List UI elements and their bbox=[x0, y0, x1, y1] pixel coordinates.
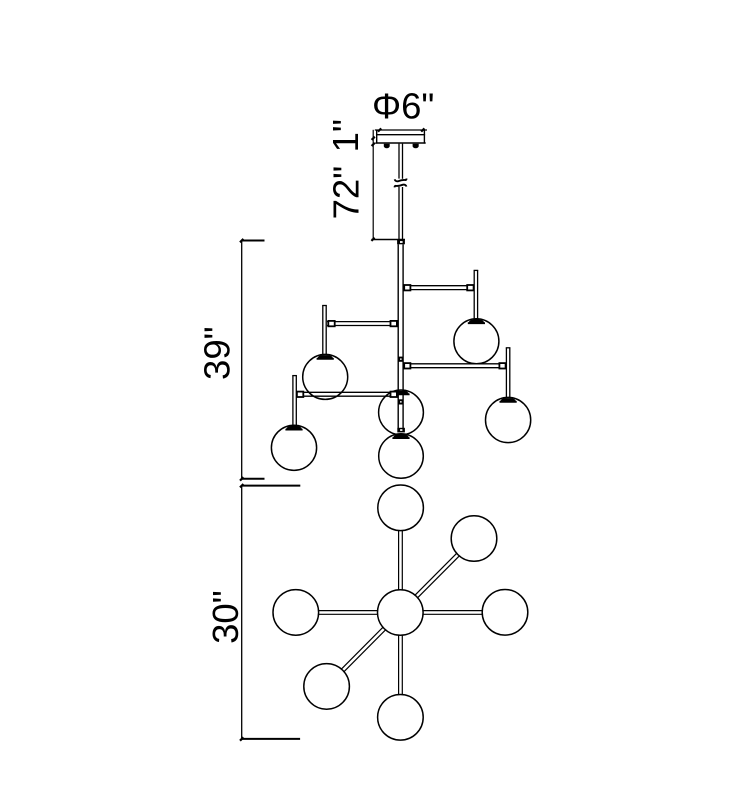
stem top junction bbox=[397, 240, 405, 245]
svg-text:Φ6": Φ6" bbox=[372, 86, 434, 127]
globe G1 (upper right) bbox=[454, 319, 499, 364]
svg-text:72": 72" bbox=[325, 166, 366, 220]
fitter G5 bbox=[393, 391, 410, 395]
arm A3 outer box bbox=[499, 363, 505, 368]
sputnik globe G7 (top) bbox=[378, 485, 424, 531]
globe G6 (below stem) bbox=[379, 434, 424, 479]
end rod R4 bbox=[292, 375, 297, 426]
30" top tick bbox=[242, 485, 300, 487]
canopy foot left bbox=[384, 144, 390, 148]
stem collar B bbox=[398, 399, 403, 404]
main stem bbox=[398, 244, 403, 430]
dimension line 1" / 72" (vertical at left of canopy/rod) bbox=[372, 130, 374, 240]
fitter G2 bbox=[317, 355, 334, 359]
end rod R2 bbox=[322, 305, 327, 354]
sputnik arm down bbox=[399, 635, 403, 694]
canopy foot right bbox=[413, 144, 419, 149]
fitter G6 bbox=[393, 434, 410, 438]
end rod R1 bbox=[474, 270, 479, 319]
svg-text:30": 30" bbox=[205, 590, 246, 644]
sputnik arm left bbox=[319, 611, 378, 615]
sputnik arm right bbox=[423, 611, 482, 615]
39" arrow bottom bbox=[240, 477, 243, 480]
fitter G1 bbox=[468, 320, 485, 324]
globe G4 (lower far left) bbox=[271, 425, 316, 470]
svg-text:1": 1" bbox=[325, 119, 366, 152]
sputnik globe G9 (right) bbox=[482, 590, 528, 636]
arm A4 (left, to G4) bbox=[297, 392, 399, 396]
39" top tick bbox=[241, 240, 265, 242]
dim tick 72" bottom bbox=[371, 238, 374, 241]
dim tick right (Φ6) bbox=[421, 128, 424, 131]
dim tick 1" bottom / 72" top bbox=[372, 143, 375, 146]
30" arrow bottom bbox=[240, 737, 243, 740]
39" arrow top bbox=[240, 239, 243, 242]
hanger rod (canopy to stem), with break bbox=[399, 144, 403, 240]
canopy bbox=[375, 130, 425, 144]
stem collar A bbox=[398, 357, 403, 362]
fitter G3 bbox=[500, 398, 517, 402]
dimension 30" vertical line bbox=[241, 486, 243, 739]
30" bottom tick bbox=[241, 738, 300, 740]
30" arrow top bbox=[240, 484, 243, 487]
globe G2 (mid left) bbox=[303, 354, 348, 399]
globe G3 (lower right) bbox=[486, 397, 531, 442]
stem bottom connector bbox=[397, 428, 405, 433]
72" bottom extension tick bbox=[372, 239, 406, 241]
sputnik globe G12 (lower left) bbox=[304, 664, 350, 710]
arm A4 stem-side box bbox=[391, 392, 397, 397]
fitter G4 bbox=[286, 426, 303, 430]
sputnik globe G8 (upper right) bbox=[451, 516, 497, 562]
rod break symbol bbox=[395, 179, 407, 188]
sputnik arm lower-left bbox=[341, 627, 385, 671]
arm A1 (right, to G1) bbox=[403, 286, 473, 290]
arm A2 (left, to G2) bbox=[327, 322, 398, 326]
arm A1 outer box bbox=[467, 285, 473, 290]
sputnik arm up bbox=[399, 531, 403, 590]
sputnik arm upper-right bbox=[415, 553, 459, 597]
dim tick 1" top bbox=[372, 137, 375, 140]
sputnik globe G13 (bottom) bbox=[378, 695, 424, 741]
dimension 39" vertical line bbox=[241, 241, 243, 479]
dim tick left (Φ6) bbox=[378, 128, 381, 131]
arm A3 (right, to G3) bbox=[403, 364, 505, 368]
dimension line Φ6 (canopy width) bbox=[375, 129, 427, 131]
arm A2 stem-side box bbox=[391, 321, 397, 326]
arm A1 stem-side box bbox=[404, 285, 410, 290]
end rod R3 bbox=[506, 348, 511, 398]
39" bottom tick bbox=[241, 478, 265, 480]
arm A2 outer box bbox=[328, 321, 334, 326]
arm A4 outer box bbox=[297, 392, 303, 397]
arm A3 stem-side box bbox=[404, 363, 410, 368]
svg-text:39": 39" bbox=[196, 326, 237, 380]
globe G5 (center, behind stem) bbox=[379, 390, 424, 435]
sputnik center globe G10 bbox=[378, 590, 424, 636]
sputnik globe G11 (left) bbox=[273, 590, 319, 636]
